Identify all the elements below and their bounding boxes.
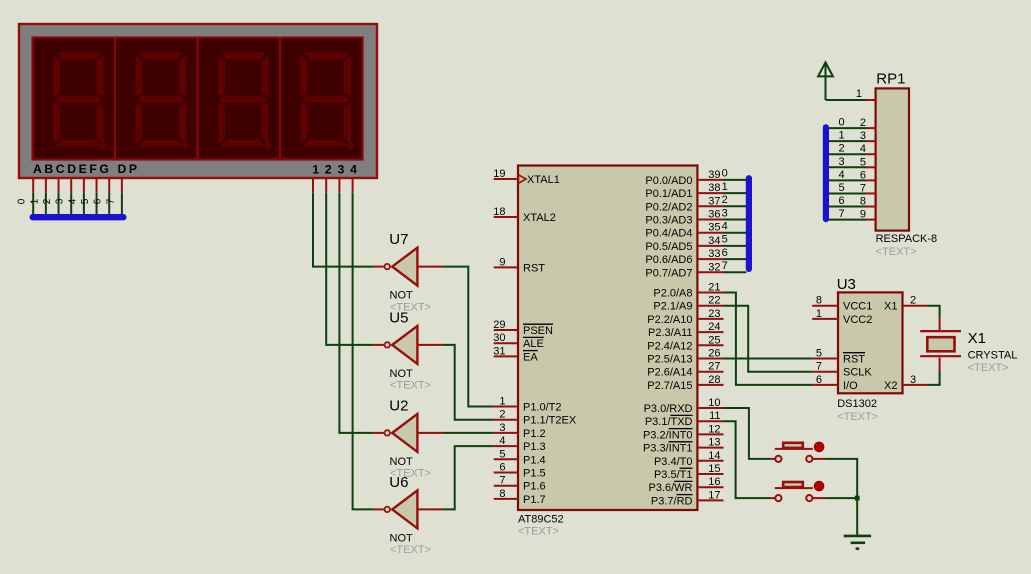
svg-text:2: 2 xyxy=(910,295,916,307)
RTC U3 DS1302 body xyxy=(838,292,903,393)
svg-text:12: 12 xyxy=(708,423,720,435)
svg-text:15: 15 xyxy=(708,463,720,475)
svg-text:P2.0/A8: P2.0/A8 xyxy=(653,288,692,300)
wire bus to RP1 pin 4 net 2 xyxy=(828,153,866,155)
svg-text:<TEXT>: <TEXT> xyxy=(968,362,1009,374)
svg-text:36: 36 xyxy=(708,209,720,221)
U3 pin 6 (I/O) stub xyxy=(812,384,838,386)
U1 pin 19 (XTAL1) stub xyxy=(494,178,518,180)
svg-text:<TEXT>: <TEXT> xyxy=(390,544,431,556)
overline INT1 xyxy=(669,441,693,443)
wire bus to RP1 pin 3 net 1 xyxy=(828,140,866,142)
U1 pin 28 (P2.7/A15) stub xyxy=(697,384,723,386)
svg-text:1: 1 xyxy=(29,198,40,204)
U1 pin 3 (P1.2) stub xyxy=(494,432,518,434)
svg-text:P1.3: P1.3 xyxy=(523,441,546,453)
U1 pin 8 (P1.7) stub xyxy=(494,498,518,500)
svg-text:0: 0 xyxy=(722,168,728,180)
U5 input pin stub xyxy=(417,344,443,346)
U3 pin 2 (X1) stub xyxy=(903,305,929,307)
svg-text:8: 8 xyxy=(499,488,505,500)
svg-text:NOT: NOT xyxy=(390,368,414,380)
U1 pin 14 (P3.4/T0) stub xyxy=(697,460,723,462)
display digit 4 xyxy=(300,52,354,149)
microcontroller U1 AT89C52 body xyxy=(518,166,697,511)
svg-text:6: 6 xyxy=(93,198,104,204)
power symbol (VCC arrow) xyxy=(818,62,833,100)
push button 1 xyxy=(775,442,825,462)
svg-text:5: 5 xyxy=(816,348,822,360)
svg-text:P3.7/RD: P3.7/RD xyxy=(651,495,693,507)
wire P3.0 (pin 10) to button 1 xyxy=(724,408,772,459)
svg-text:6: 6 xyxy=(499,462,505,474)
svg-text:1: 1 xyxy=(722,181,728,193)
svg-text:<TEXT>: <TEXT> xyxy=(837,411,878,423)
U1 pin 31 (EA) stub xyxy=(494,355,518,357)
U1 pin 2 (P1.1/T2EX) stub xyxy=(494,419,518,421)
wire P0.3 to bus net 3 xyxy=(724,219,747,221)
RP1 pin 5 stub xyxy=(866,166,876,168)
svg-text:P2.4/A12: P2.4/A12 xyxy=(647,340,692,352)
RP1 pin 3 stub xyxy=(866,140,876,142)
wire bus to RP1 pin 5 net 3 xyxy=(828,166,866,168)
U3 pin 5 (RST) stub xyxy=(812,358,838,360)
button 2 left pin stub xyxy=(771,497,775,499)
svg-text:P1.5: P1.5 xyxy=(523,468,546,480)
wire segment pin to bus net 5 xyxy=(96,193,98,217)
svg-text:P2.3/A11: P2.3/A11 xyxy=(648,327,692,339)
svg-text:RST: RST xyxy=(843,354,865,366)
svg-text:3: 3 xyxy=(499,422,505,434)
svg-text:27: 27 xyxy=(708,361,720,373)
svg-text:NOT: NOT xyxy=(390,456,414,468)
svg-text:35: 35 xyxy=(708,222,720,234)
svg-text:4: 4 xyxy=(350,163,357,177)
U3 pin 3 (X2) stub xyxy=(903,384,929,386)
wire P0.5 to bus net 5 xyxy=(724,245,747,247)
svg-text:XTAL2: XTAL2 xyxy=(523,212,556,224)
wire bus to RP1 pin 7 net 5 xyxy=(828,192,866,194)
svg-text:31: 31 xyxy=(493,345,505,357)
RP1 pin 2 stub xyxy=(866,127,876,129)
U6 output pin stub xyxy=(373,508,385,510)
svg-text:5: 5 xyxy=(499,448,505,460)
svg-text:7: 7 xyxy=(499,475,505,487)
svg-text:U7: U7 xyxy=(389,231,408,248)
svg-text:PSEN: PSEN xyxy=(523,325,553,337)
wire P2.1 (pin 22) to DS1302 SCLK xyxy=(724,306,813,372)
svg-text:7: 7 xyxy=(816,361,822,373)
svg-text:38: 38 xyxy=(708,182,720,194)
svg-text:21: 21 xyxy=(708,282,720,294)
svg-text:VCC2: VCC2 xyxy=(843,314,872,326)
U1 pin 27 (P2.6/A14) stub xyxy=(697,371,723,373)
svg-text:P2.1/A9: P2.1/A9 xyxy=(653,301,692,313)
P0 bus bar xyxy=(746,178,752,269)
svg-text:6: 6 xyxy=(839,195,845,207)
svg-text:U6: U6 xyxy=(389,474,408,491)
U1 pin 21 (P2.0/A8) stub xyxy=(697,292,723,294)
svg-text:<TEXT>: <TEXT> xyxy=(518,526,559,538)
wire segment pin to bus net 3 xyxy=(70,193,72,217)
digit separator xyxy=(279,38,281,159)
wire segment pin to bus net 1 xyxy=(45,193,47,217)
wire button 2 to ground rail xyxy=(825,497,857,499)
wire P0.6 to bus net 6 xyxy=(724,258,747,260)
U1 pin 13 (P3.3/INT1) stub xyxy=(697,447,723,449)
U1 pin 1 (P1.0/T2) stub xyxy=(494,406,518,408)
svg-text:7: 7 xyxy=(105,198,116,204)
U1 pin 11 (P3.1/TXD) stub xyxy=(697,420,723,422)
display segment pin DP stub xyxy=(121,179,123,193)
svg-text:1: 1 xyxy=(312,163,319,177)
display digit 2 xyxy=(135,52,189,149)
wire U7 input to P1.0 xyxy=(443,267,494,407)
svg-text:P0.0/AD0: P0.0/AD0 xyxy=(645,175,692,187)
svg-text:P1.7: P1.7 xyxy=(523,494,546,506)
wire P0.2 to bus net 2 xyxy=(724,205,747,207)
svg-text:24: 24 xyxy=(708,321,720,333)
svg-text:X1: X1 xyxy=(968,330,986,347)
U2 output pin stub xyxy=(373,432,385,434)
svg-text:U5: U5 xyxy=(389,309,408,326)
svg-text:RESPACK-8: RESPACK-8 xyxy=(876,233,938,245)
XTAL1 clock chevron xyxy=(519,175,527,183)
inverter U2 (NOT gate) xyxy=(385,414,418,452)
svg-text:P0.3/AD3: P0.3/AD3 xyxy=(645,215,692,227)
button 1 right pin stub xyxy=(812,458,825,460)
svg-text:18: 18 xyxy=(493,206,505,218)
svg-text:5: 5 xyxy=(722,234,728,246)
inverter U6 (NOT gate) xyxy=(385,490,418,528)
U1 pin 15 (P3.5/T1) stub xyxy=(697,473,723,475)
U1 pin 32 (P0.7/AD7) stub xyxy=(697,271,723,273)
svg-text:4: 4 xyxy=(67,198,78,204)
svg-text:I/O: I/O xyxy=(843,380,858,392)
display digit 1 xyxy=(52,52,106,149)
svg-text:37: 37 xyxy=(708,195,720,207)
svg-text:P0.6/AD6: P0.6/AD6 xyxy=(645,254,692,266)
display segment pin B stub xyxy=(45,179,47,193)
svg-text:8: 8 xyxy=(816,295,822,307)
display segment pin D stub xyxy=(70,179,72,193)
U3 pin 8 (VCC1) stub xyxy=(812,305,838,307)
U1 pin 25 (P2.4/A12) stub xyxy=(697,344,723,346)
button 2 right pin stub xyxy=(812,497,825,499)
wire bus to RP1 pin 6 net 4 xyxy=(828,179,866,181)
U1 pin 39 (P0.0/AD0) stub xyxy=(697,179,723,181)
svg-text:P1.0/T2: P1.0/T2 xyxy=(523,402,562,414)
U1 pin 6 (P1.5) stub xyxy=(494,472,518,474)
svg-text:5: 5 xyxy=(839,182,845,194)
svg-text:ALE: ALE xyxy=(523,338,544,350)
wire button 1 to ground rail xyxy=(825,459,857,536)
svg-text:P0.4/AD4: P0.4/AD4 xyxy=(645,228,692,240)
wire segment pin to bus net 0 xyxy=(32,193,34,217)
svg-text:P3.1/TXD: P3.1/TXD xyxy=(645,416,693,428)
svg-text:P2.2/A10: P2.2/A10 xyxy=(647,314,692,326)
crystal X1 xyxy=(920,318,961,371)
U1 pin 17 (P3.7/RD) stub xyxy=(697,499,723,501)
svg-text:AT89C52: AT89C52 xyxy=(518,514,564,526)
RP1 pin 1 stub xyxy=(866,99,876,101)
U1 pin 9 (RST) stub xyxy=(494,266,518,268)
wire digit 4 to NOT gate output xyxy=(353,193,373,510)
svg-text:X2: X2 xyxy=(884,380,897,392)
wire junction xyxy=(855,496,860,501)
svg-text:2: 2 xyxy=(42,198,53,204)
svg-text:2: 2 xyxy=(722,194,728,206)
wire P2.0 (pin 21) to DS1302 I/O xyxy=(724,293,813,385)
svg-text:1: 1 xyxy=(816,308,822,320)
svg-text:P1.1/T2EX: P1.1/T2EX xyxy=(523,415,577,427)
wire P2.5 (pin 26) to DS1302 RST xyxy=(724,358,813,360)
wire segment pin to bus net 6 xyxy=(108,193,110,217)
overline TXD xyxy=(671,414,693,416)
svg-text:5: 5 xyxy=(80,198,91,204)
wire P0.0 to bus net 0 xyxy=(724,179,747,181)
svg-text:16: 16 xyxy=(708,476,720,488)
svg-text:22: 22 xyxy=(708,295,720,307)
U1 pin 37 (P0.2/AD2) stub xyxy=(697,205,723,207)
U7 output pin stub xyxy=(373,266,385,268)
svg-text:34: 34 xyxy=(708,235,720,247)
svg-text:EA: EA xyxy=(523,351,538,363)
display digit pin 1 stub xyxy=(312,179,314,193)
RP1 pin 6 stub xyxy=(866,179,876,181)
svg-text:P3.0/RXD: P3.0/RXD xyxy=(644,403,693,415)
svg-text:RP1: RP1 xyxy=(876,71,905,88)
wire P0.4 to bus net 4 xyxy=(724,232,747,234)
U3 pin 1 (VCC2) stub xyxy=(812,318,838,320)
svg-text:28: 28 xyxy=(708,374,720,386)
svg-text:0: 0 xyxy=(17,198,28,204)
svg-text:<TEXT>: <TEXT> xyxy=(390,380,431,392)
overline PSEN xyxy=(523,323,553,325)
svg-text:13: 13 xyxy=(708,437,720,449)
svg-text:11: 11 xyxy=(709,410,720,422)
wire bus to RP1 pin 2 net 0 xyxy=(828,127,866,129)
svg-text:7: 7 xyxy=(722,260,728,272)
digit separator xyxy=(114,38,116,159)
U1 pin 38 (P0.1/AD1) stub xyxy=(697,192,723,194)
RP1 bus bar xyxy=(823,127,829,219)
display segment pin F stub xyxy=(96,179,98,193)
svg-text:P2.6/A14: P2.6/A14 xyxy=(647,367,692,379)
svg-text:32: 32 xyxy=(708,261,720,273)
svg-text:3: 3 xyxy=(910,374,916,386)
overline ALE xyxy=(523,336,544,338)
svg-text:6: 6 xyxy=(816,374,822,386)
wire bus to RP1 pin 8 net 6 xyxy=(828,206,866,208)
4-digit 7-segment display body xyxy=(19,24,377,178)
inverter U7 (NOT gate) xyxy=(385,248,418,286)
svg-text:CRYSTAL: CRYSTAL xyxy=(968,350,1018,362)
U1 pin 30 (ALE) stub xyxy=(494,342,518,344)
overline RST xyxy=(843,352,865,354)
svg-text:4: 4 xyxy=(499,435,505,447)
svg-text:2: 2 xyxy=(839,143,845,155)
U1 pin 33 (P0.6/AD6) stub xyxy=(697,258,723,260)
svg-text:P3.2/INT0: P3.2/INT0 xyxy=(643,429,693,441)
svg-text:1: 1 xyxy=(856,88,862,100)
svg-text:1: 1 xyxy=(499,396,505,408)
display segment pin E stub xyxy=(83,179,85,193)
svg-text:3: 3 xyxy=(338,163,345,177)
U1 pin 18 (XTAL2) stub xyxy=(494,216,518,218)
display digit pin 3 stub xyxy=(338,179,340,193)
svg-text:P3.4/T0: P3.4/T0 xyxy=(654,456,693,468)
U1 pin 4 (P1.3) stub xyxy=(494,445,518,447)
svg-text:23: 23 xyxy=(708,308,720,320)
wire VCC to RP1 pin 1 xyxy=(826,99,866,101)
svg-text:6: 6 xyxy=(722,247,728,259)
svg-text:4: 4 xyxy=(839,169,845,181)
svg-text:17: 17 xyxy=(708,489,720,501)
svg-text:3: 3 xyxy=(55,198,66,204)
RP1 pin 4 stub xyxy=(866,153,876,155)
U1 pin 12 (P3.2/INT0) stub xyxy=(697,433,723,435)
wire U2 input to P1.2 xyxy=(443,432,494,434)
svg-text:P0.7/AD7: P0.7/AD7 xyxy=(645,267,692,279)
U1 pin 5 (P1.4) stub xyxy=(494,458,518,460)
RP1 pin 8 stub xyxy=(866,206,876,208)
wire segment pin to bus net 2 xyxy=(58,193,60,217)
svg-text:26: 26 xyxy=(708,348,720,360)
overline INT0 xyxy=(669,428,693,430)
U5 output pin stub xyxy=(373,344,385,346)
wire digit 3 to NOT gate output xyxy=(339,193,373,433)
display digit pin 2 stub xyxy=(325,179,327,193)
U2 input pin stub xyxy=(417,432,443,434)
U1 pin 16 (P3.6/WR) stub xyxy=(697,486,723,488)
svg-text:NOT: NOT xyxy=(390,532,414,544)
U3 pin 7 (SCLK) stub xyxy=(812,371,838,373)
U1 pin 10 (P3.0/RXD) stub xyxy=(697,407,723,409)
U1 pin 7 (P1.6) stub xyxy=(494,485,518,487)
wire P0.7 to bus net 7 xyxy=(724,271,747,273)
U1 pin 22 (P2.1/A9) stub xyxy=(697,305,723,307)
wire U3 X1 to crystal xyxy=(928,306,940,318)
U1 pin 36 (P0.3/AD3) stub xyxy=(697,219,723,221)
svg-text:P2.5/A13: P2.5/A13 xyxy=(647,354,692,366)
overline EA xyxy=(523,350,538,352)
svg-text:4: 4 xyxy=(722,221,728,233)
svg-text:ABCDEFG DP: ABCDEFG DP xyxy=(33,162,140,176)
svg-text:DS1302: DS1302 xyxy=(837,398,877,410)
svg-text:33: 33 xyxy=(708,248,720,260)
svg-text:<TEXT>: <TEXT> xyxy=(876,246,917,258)
svg-text:1: 1 xyxy=(839,130,845,142)
svg-text:XTAL1: XTAL1 xyxy=(527,174,560,186)
svg-text:14: 14 xyxy=(708,450,720,462)
svg-text:P3.3/INT1: P3.3/INT1 xyxy=(643,443,693,455)
svg-text:9: 9 xyxy=(499,256,505,268)
display digit pin 4 stub xyxy=(352,179,354,193)
button 1 left pin stub xyxy=(771,458,775,460)
wire U5 input to P1.1 xyxy=(443,345,494,420)
overline T1 xyxy=(680,467,693,469)
U6 input pin stub xyxy=(417,508,443,510)
display digit 3 xyxy=(217,52,271,149)
U1 pin 24 (P2.3/A11) stub xyxy=(697,331,723,333)
U1 pin 34 (P0.5/AD5) stub xyxy=(697,245,723,247)
display segment pin C stub xyxy=(58,179,60,193)
svg-text:0: 0 xyxy=(839,117,845,129)
svg-text:U2: U2 xyxy=(389,397,408,414)
svg-text:VCC1: VCC1 xyxy=(843,301,872,313)
U1 pin 29 (PSEN) stub xyxy=(494,329,518,331)
svg-text:RST: RST xyxy=(523,262,545,274)
RP1 pin 7 stub xyxy=(866,192,876,194)
svg-text:P1.6: P1.6 xyxy=(523,481,546,493)
svg-text:7: 7 xyxy=(839,208,845,220)
display segment pin A stub xyxy=(32,179,34,193)
wire segment pin to bus net 7 xyxy=(121,193,123,217)
display data bus bar xyxy=(33,214,124,220)
svg-text:19: 19 xyxy=(493,168,505,180)
U7 input pin stub xyxy=(417,266,443,268)
inverter U5 (NOT gate) xyxy=(385,326,418,364)
svg-text:P0.1/AD1: P0.1/AD1 xyxy=(645,188,692,200)
svg-text:P2.7/A15: P2.7/A15 xyxy=(647,380,692,392)
svg-text:P1.2: P1.2 xyxy=(523,428,546,440)
svg-text:P1.4: P1.4 xyxy=(523,454,546,466)
svg-text:2: 2 xyxy=(325,163,332,177)
display inner red panel xyxy=(33,38,363,160)
wire segment pin to bus net 4 xyxy=(83,193,85,217)
svg-text:P3.6/WR: P3.6/WR xyxy=(648,482,692,494)
wire digit 1 to NOT gate output xyxy=(313,193,373,267)
display segment pin G stub xyxy=(108,179,110,193)
resistor pack RP1 body xyxy=(876,88,909,230)
wire U6 input to P1.3 xyxy=(443,446,494,509)
RP1 pin 9 stub xyxy=(866,219,876,221)
svg-text:U3: U3 xyxy=(837,276,856,293)
digit separator xyxy=(197,38,199,159)
overline RD xyxy=(677,494,693,496)
overline WR xyxy=(674,480,692,482)
wire P0.1 to bus net 1 xyxy=(724,192,747,194)
U1 pin 23 (P2.2/A10) stub xyxy=(697,318,723,320)
svg-text:P0.2/AD2: P0.2/AD2 xyxy=(645,201,692,213)
U1 pin 26 (P2.5/A13) stub xyxy=(697,358,723,360)
wire digit 2 to NOT gate output xyxy=(326,193,373,345)
svg-text:SCLK: SCLK xyxy=(843,367,872,379)
U1 pin 35 (P0.4/AD4) stub xyxy=(697,232,723,234)
svg-text:P3.5/T1: P3.5/T1 xyxy=(654,469,693,481)
svg-text:X1: X1 xyxy=(884,301,897,313)
svg-text:3: 3 xyxy=(839,156,845,168)
svg-text:30: 30 xyxy=(493,332,505,344)
push button 2 xyxy=(775,481,825,501)
wire P3.1 (pin 11) to button 2 xyxy=(724,421,772,498)
svg-text:25: 25 xyxy=(708,334,720,346)
wire bus to RP1 pin 9 net 7 xyxy=(828,219,866,221)
svg-text:39: 39 xyxy=(708,169,720,181)
svg-text:10: 10 xyxy=(708,397,720,409)
svg-text:NOT: NOT xyxy=(390,290,414,302)
ground symbol xyxy=(844,536,871,549)
svg-text:3: 3 xyxy=(722,207,728,219)
svg-text:29: 29 xyxy=(493,319,505,331)
svg-text:P0.5/AD5: P0.5/AD5 xyxy=(645,241,692,253)
wire U3 X2 to crystal xyxy=(928,371,940,385)
svg-text:2: 2 xyxy=(499,409,505,421)
